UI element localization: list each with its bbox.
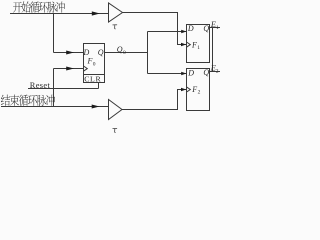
- svg-text:F: F: [191, 85, 197, 94]
- svg-text:2: 2: [198, 90, 201, 96]
- svg-text:CLR: CLR: [84, 75, 101, 84]
- svg-text:F: F: [87, 57, 93, 66]
- svg-text:Reset: Reset: [30, 81, 51, 90]
- svg-text:0: 0: [93, 61, 96, 67]
- svg-text:D: D: [187, 24, 194, 33]
- svg-text:F: F: [191, 41, 197, 50]
- svg-text:1: 1: [216, 25, 219, 31]
- svg-text:Q: Q: [98, 48, 104, 57]
- svg-text:1: 1: [197, 45, 200, 51]
- svg-text:D: D: [187, 68, 194, 77]
- svg-text:2: 2: [216, 68, 219, 74]
- svg-text:Q: Q: [203, 24, 209, 33]
- svg-text:0: 0: [123, 50, 126, 56]
- svg-text:Q: Q: [117, 45, 123, 54]
- svg-text:Q: Q: [203, 68, 209, 77]
